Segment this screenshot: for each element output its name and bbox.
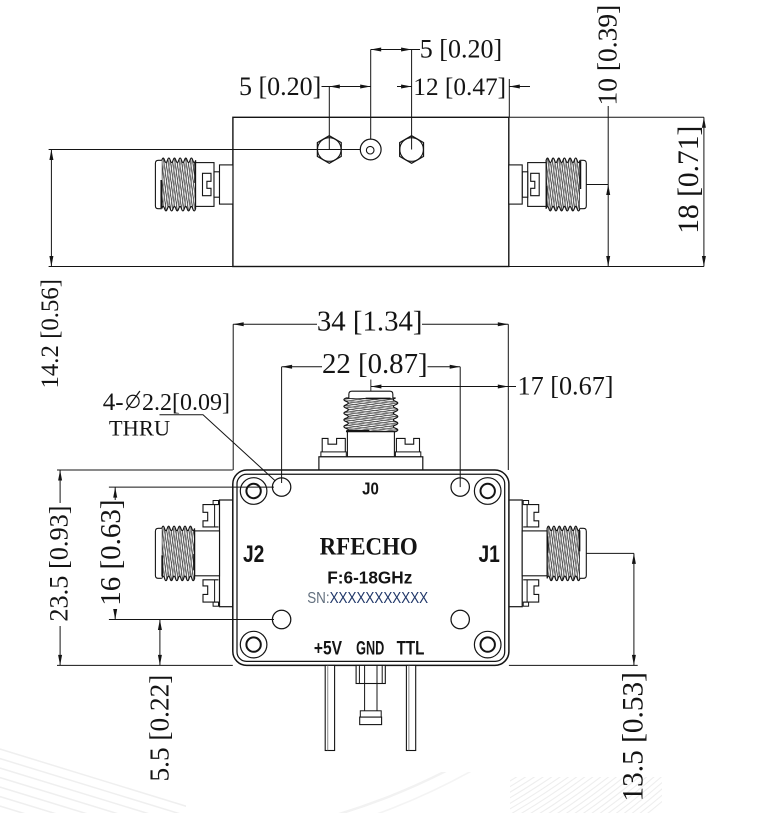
connector slot detail right (top view) xyxy=(531,173,540,195)
svg-text:SN:XXXXXXXXXXX: SN:XXXXXXXXXXX xyxy=(307,590,428,607)
svg-text:14.2 [0.56]: 14.2 [0.56] xyxy=(37,279,64,389)
chassis box inner xyxy=(237,474,505,661)
label J2 xyxy=(243,540,264,568)
label 5 [0.20] left xyxy=(239,72,321,101)
dimension 5 left xyxy=(322,85,371,89)
extension line 34/17 right xyxy=(507,324,509,470)
extension line 22 left xyxy=(281,367,283,483)
svg-text:TTL: TTL xyxy=(397,636,425,658)
svg-text:22 [0.87]: 22 [0.87] xyxy=(322,348,428,380)
svg-text:5 [0.20]: 5 [0.20] xyxy=(420,35,502,64)
connector J0 base plate xyxy=(319,457,423,471)
svg-text:23.5 [0.93]: 23.5 [0.93] xyxy=(44,505,73,621)
connector J2 body xyxy=(195,531,220,576)
dimension 16 xyxy=(113,487,117,619)
svg-text:34 [1.34]: 34 [1.34] xyxy=(317,306,423,338)
connector slot detail left (top view) xyxy=(203,173,212,195)
extension line 16 top xyxy=(109,486,274,488)
svg-text:THRU: THRU xyxy=(109,416,170,441)
corner screw bottom-left xyxy=(240,631,267,658)
top view body xyxy=(233,117,509,266)
label 16 [0.63] xyxy=(95,499,127,605)
label 22 [0.87] xyxy=(322,348,428,380)
corner screw top-right xyxy=(474,478,501,505)
svg-text:RFECHO: RFECHO xyxy=(320,533,418,561)
svg-text:+5V: +5V xyxy=(314,637,342,659)
connector J1 body xyxy=(522,531,547,576)
label SN xyxy=(307,590,428,607)
extension line bottom left xyxy=(57,664,233,666)
label 13.5 [0.53] xyxy=(618,672,650,801)
connector threads right (top view) xyxy=(546,158,586,211)
extension line hex left xyxy=(328,87,330,150)
svg-text:5 [0.20]: 5 [0.20] xyxy=(239,72,321,101)
hex screw left (top view) xyxy=(317,136,341,164)
label 10 [0.39] xyxy=(592,5,623,106)
extension line bottom right xyxy=(509,664,638,666)
svg-text:GND: GND xyxy=(356,638,384,659)
extension line 23.5 top xyxy=(57,469,233,471)
connector body left (top view) xyxy=(196,163,233,207)
dimension 12 xyxy=(397,85,530,89)
label J1 xyxy=(479,540,500,568)
connector J1 tab top xyxy=(523,501,539,527)
svg-text:13.5 [0.53]: 13.5 [0.53] xyxy=(618,672,650,801)
dimension 5 top xyxy=(371,48,420,52)
dimension 22 xyxy=(282,365,461,369)
extension line 34 left xyxy=(232,324,234,470)
corner screw bottom-right xyxy=(474,631,501,658)
hole callout leader xyxy=(160,415,276,481)
label THRU xyxy=(109,416,170,441)
dimension 17 xyxy=(371,380,516,392)
connector J0 tab left xyxy=(321,438,346,456)
centerline J1 xyxy=(586,552,634,554)
logo RFECHO xyxy=(320,533,418,561)
label 17 [0.67] xyxy=(518,371,614,400)
hex screw right (top view) xyxy=(400,136,424,164)
chassis box outer xyxy=(233,470,509,665)
GND feedthrough xyxy=(356,665,385,724)
connector J2 tab bottom xyxy=(203,580,219,606)
extension line 22 right xyxy=(459,367,461,487)
svg-text:J0: J0 xyxy=(362,479,379,498)
svg-text:10 [0.39]: 10 [0.39] xyxy=(592,5,623,106)
connector J0 threads xyxy=(344,391,398,432)
through hole top-right xyxy=(451,478,469,496)
label 5 [0.20] top xyxy=(420,35,502,64)
label J0 xyxy=(362,479,379,498)
connector J2 flange xyxy=(220,500,233,607)
extension line body right top xyxy=(508,79,510,117)
label +5V xyxy=(314,637,342,659)
connector J0 body xyxy=(347,432,394,457)
svg-text:2.2[0.09]: 2.2[0.09] xyxy=(142,390,230,416)
label 23.5 [0.93] xyxy=(44,505,73,621)
connector body right (top view) xyxy=(509,163,546,207)
dimension 10 xyxy=(606,106,610,267)
dimension 34 xyxy=(233,322,508,326)
label F:6-18GHz xyxy=(327,567,412,587)
label 5.5 [0.22] xyxy=(145,675,175,782)
extension line center pin xyxy=(370,50,372,140)
through hole bottom-left xyxy=(272,610,290,628)
label GND xyxy=(356,638,384,659)
connector J2 tab top xyxy=(203,501,219,527)
svg-text:J1: J1 xyxy=(479,540,500,568)
label 18 [0.71] xyxy=(673,126,705,234)
connector threads left (top view) xyxy=(155,158,195,211)
through hole bottom-right xyxy=(451,610,469,628)
label 14.2 [0.56] xyxy=(37,279,64,389)
label 12 [0.47] xyxy=(413,73,506,101)
dimension 18 xyxy=(702,117,706,266)
corner screw top-left xyxy=(240,478,267,505)
label 34 [1.34] xyxy=(317,306,423,338)
centerline through fasteners xyxy=(49,149,361,151)
dimension 5.5 xyxy=(158,620,162,666)
extension top edge right xyxy=(509,116,704,118)
svg-text:5.5 [0.22]: 5.5 [0.22] xyxy=(145,675,175,782)
extension line 16 bottom xyxy=(109,619,274,621)
dimension 13.5 xyxy=(632,553,636,665)
dimension 14.2 xyxy=(49,150,53,267)
extension line hex right xyxy=(411,50,413,150)
svg-text:4-: 4- xyxy=(103,389,124,416)
connector J2 threads xyxy=(155,526,194,580)
connector J1 flange xyxy=(509,500,522,607)
svg-text:18 [0.71]: 18 [0.71] xyxy=(673,126,705,234)
svg-text:16 [0.63]: 16 [0.63] xyxy=(95,499,127,605)
connector J0 tab right xyxy=(395,438,420,456)
dimension 23.5 xyxy=(58,470,62,665)
svg-text:F:6-18GHz: F:6-18GHz xyxy=(327,567,412,587)
extension bottom edge xyxy=(49,266,704,268)
connector J1 tab bottom xyxy=(523,580,539,606)
label 4-dia 2.2 [0.09] xyxy=(103,389,230,416)
label TTL xyxy=(397,636,425,658)
centerline connector right xyxy=(586,184,608,186)
through hole top-left xyxy=(272,478,290,496)
connector J1 threads xyxy=(547,526,586,580)
pin +5V xyxy=(325,665,334,750)
svg-text:J2: J2 xyxy=(243,540,264,568)
center pin hole (top view) xyxy=(360,139,381,160)
pin TTL xyxy=(406,665,415,750)
svg-text:12 [0.47]: 12 [0.47] xyxy=(413,73,506,101)
svg-text:17 [0.67]: 17 [0.67] xyxy=(518,371,614,400)
